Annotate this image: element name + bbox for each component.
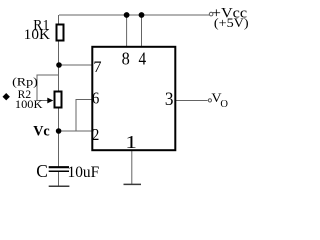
svg-text:C: C <box>36 161 48 181</box>
svg-text:1: 1 <box>125 133 137 152</box>
svg-text:(+5V): (+5V) <box>214 16 249 30</box>
svg-text:O: O <box>220 99 228 110</box>
svg-text:6: 6 <box>92 90 99 108</box>
svg-text:3: 3 <box>165 88 174 109</box>
svg-text:Vc: Vc <box>33 124 50 140</box>
svg-text:100K: 100K <box>15 99 43 111</box>
svg-text:2: 2 <box>92 126 99 144</box>
svg-text:10K: 10K <box>24 27 50 43</box>
svg-text:10uF: 10uF <box>68 162 100 181</box>
svg-text:4: 4 <box>138 48 146 68</box>
svg-text:8: 8 <box>122 49 130 69</box>
svg-text:(Rp): (Rp) <box>12 74 38 88</box>
svg-text:7: 7 <box>93 57 101 76</box>
